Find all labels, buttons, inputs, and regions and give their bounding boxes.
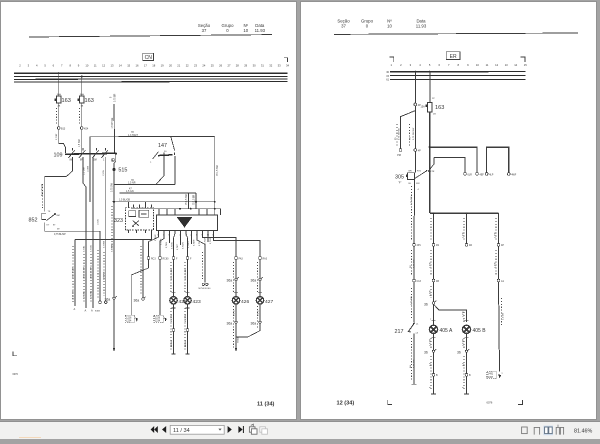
U1 unused pin stubs [170,233,209,245]
wire F1 to connector [58,103,60,127]
svg-text:8: 8 [69,63,71,67]
wire F1 connector down to switch 109 [59,129,66,153]
bus line X [14,78,288,80]
fuse 163 (F1) [55,93,71,107]
frame corner mark top-right [284,58,288,62]
svg-text:12: 12 [102,63,105,67]
first page button [151,426,158,433]
svg-text:0,75BL: 0,75BL [166,242,168,248]
svg-text:1: 1 [391,63,393,67]
svg-text:405 B: 405 B [473,328,487,334]
wire U1 pin1 to connector RC3 [149,233,159,256]
wire 515 down long center run [113,169,115,296]
ground ref box right column [487,371,504,378]
svg-text:4LP: 4LP [489,173,494,176]
svg-text:17: 17 [144,63,147,67]
svg-text:1497: 1497 [488,376,494,379]
svg-text:4EF: 4EF [480,173,485,176]
wire staple to connectors 4LP 4WF [485,147,517,176]
svg-text:0,75GN: 0,75GN [183,242,185,249]
junction dots row y201.8 [113,201,216,203]
bus line 15 [390,75,525,77]
connector circle 49 [497,243,504,247]
junction dot on wire B [429,146,431,148]
svg-text:163: 163 [62,98,71,104]
svg-text:13: 13 [111,63,114,67]
svg-text:0,75WS: 0,75WS [188,241,190,248]
lamp 427 lower wire merge to 426 [236,304,261,337]
ignition switch 109 [54,148,117,162]
bus line 31 [14,81,288,83]
svg-text:0,75GR: 0,75GR [155,234,157,241]
svg-text:4: 4 [419,63,421,67]
svg-text:4B: 4B [436,280,439,283]
svg-text:a1: a1 [416,323,419,325]
U1 pin wire label smudges [155,234,212,250]
svg-text:4D: 4D [469,244,472,247]
svg-text:30: 30 [164,151,167,153]
svg-text:32: 32 [269,63,272,67]
column end marks x75 x86 x93 [74,307,101,313]
connector circle 40 [465,243,472,247]
svg-text:BR: BR [409,171,412,173]
svg-text:61: 61 [386,79,389,82]
connector circle end contact4 [105,301,108,304]
svg-text:F: F [176,258,178,260]
svg-text:27: 27 [228,63,231,67]
connector circle end of 852 return [99,301,102,304]
last page button [238,426,244,433]
frame corner mark bottom-left [13,351,17,355]
relay 147 left emitter wire [156,156,164,185]
svg-text:0,75BL: 0,75BL [83,245,85,252]
svg-text:1,5 W: 1,5 W [463,231,465,238]
svg-text:A: A [74,307,76,311]
svg-text:217: 217 [395,329,404,335]
svg-text:12: 12 [495,63,498,67]
ground ref box 1234 [154,259,167,322]
svg-text:ER: ER [450,54,457,60]
wire horizontal y239.5 [75,239,152,241]
wire gauge label smudge columns (right page) [397,124,502,390]
svg-text:1,5 SW: 1,5 SW [503,312,505,320]
svg-text:0,75 BR: 0,75 BR [115,93,117,102]
svg-text:36a: 36a [134,298,140,302]
wire from 305 down (column 1) [413,179,416,243]
svg-text:405 A: 405 A [440,328,453,334]
svg-text:8T: 8T [53,225,56,227]
svg-text:163: 163 [85,98,94,104]
bus rail labels 30 15 61 [386,71,389,82]
svg-text:B13: B13 [61,127,66,130]
svg-text:1,5SW: 1,5SW [88,166,90,172]
wire 515 run bottom with arrow [113,299,116,351]
relay 147 [150,143,175,163]
svg-text:305: 305 [395,175,404,181]
switch 305 [395,170,427,185]
svg-text:0,75 SW: 0,75 SW [414,359,416,368]
svg-text:0: 0 [366,24,369,29]
connector circle F423 [186,257,192,261]
switch 852 [29,211,60,226]
svg-text:36a: 36a [251,322,257,326]
wire horizontal feed y136 [90,131,215,137]
gauge labels column x75 [73,266,75,299]
lamp 422 [170,259,187,304]
svg-text:2: 2 [400,63,402,67]
svg-text:5: 5 [44,63,46,67]
connector circle 44 [432,243,439,247]
svg-text:2P: 2P [432,98,435,100]
svg-text:7T: 7T [57,229,60,231]
svg-text:PM: PM [397,154,401,157]
wire horizontal y193 [120,188,196,194]
wire vertical x214.7 [215,137,219,209]
U1 bottom pin ticks [159,230,214,233]
svg-text:23: 23 [194,63,197,67]
wire lamp B bottom [463,352,472,394]
title block page 12 [337,19,426,29]
wire col1 mid [410,246,416,279]
wire vertical x90 [89,137,91,202]
lamp 405 A [429,325,453,334]
single page layout icon [522,427,528,434]
svg-text:2: 2 [19,63,21,67]
svg-text:15: 15 [386,75,389,78]
svg-text:0,75GE: 0,75GE [161,238,163,245]
U1 pin number smudge row [157,235,214,237]
continuous layout icon [534,427,539,434]
svg-text:36: 36 [424,302,428,306]
connector circle 4P lower [414,149,421,153]
lamp 426 [232,297,249,305]
wire contact4 of 109 down [105,157,107,301]
lamp 422 lower wire [171,304,176,354]
wire A main down [410,106,416,149]
svg-text:1,5 SW: 1,5 SW [79,139,81,147]
svg-text:11: 11 [486,63,489,67]
svg-text:4P: 4P [418,149,421,152]
wire drop A from bus [414,71,416,103]
continuous facing layout icon [556,425,563,435]
switch 852 branch: contact wire to loop [45,157,73,212]
svg-text:BL: BL [409,183,412,185]
svg-text:19: 19 [161,63,164,67]
connector 36a col143 [134,240,146,303]
svg-text:30: 30 [386,71,389,74]
connector circle B1 [497,279,504,283]
svg-text:4: 4 [418,189,420,191]
wire drop col2 [433,213,435,243]
svg-text:1,5 BL/GB: 1,5 BL/GB [119,198,130,201]
title rule page 12 [334,33,578,34]
svg-text:37: 37 [202,28,207,33]
svg-text:a3: a3 [416,332,419,334]
node junction at right of 109 [115,152,117,154]
svg-text:1,5 SW: 1,5 SW [83,167,85,175]
wire drop to fuse F2 [81,76,83,97]
svg-text:8M: 8M [57,215,60,217]
svg-text:E4B3: E4B3 [95,311,101,313]
svg-text:75 1,5 SW: 75 1,5 SW [186,193,188,205]
svg-text:31: 31 [261,63,264,67]
svg-text:323: 323 [114,218,123,224]
prev page button [162,426,166,433]
terminal square pin below 109 [112,159,114,161]
wire drop to fuse F1 [58,72,60,96]
connector circle RC60 [159,257,169,261]
svg-text:C13: C13 [417,280,422,283]
svg-text:RT1: RT1 [417,171,422,173]
svg-text:6076: 6076 [487,401,493,405]
svg-text:0,75SW: 0,75SW [111,245,113,252]
svg-text:0,75WS: 0,75WS [103,240,105,248]
svg-text:2B: 2B [433,114,436,116]
connector 36a on 515 run [105,296,117,302]
svg-text:A: A [85,309,87,313]
svg-text:78 1,5 SW: 78 1,5 SW [217,164,219,176]
svg-text:10: 10 [476,63,479,67]
page number field [170,425,224,434]
node 515 [112,154,127,174]
svg-text:A: A [91,309,93,313]
connector label ER box [446,52,460,60]
wire 36a to lamp 405B branch [434,304,467,322]
wire lamp A bottom [430,352,439,394]
relay 323 pin ticks top [129,202,152,208]
frame corner mark bottom-left page12 [388,400,392,404]
svg-text:163: 163 [435,105,444,111]
wire vertical x196 [195,193,197,209]
svg-text:0,75 GN/SW: 0,75 GN/SW [413,127,415,140]
svg-text:36a: 36a [105,298,111,302]
wire U1 pin9 to connector PA3 [203,233,237,256]
U1 top pin ticks [159,209,215,215]
wire horizontal above box y208.7 [131,209,221,215]
wire U1 pin6 to lamp 423 [186,233,188,256]
svg-text:SW: SW [416,183,420,185]
svg-text:RA3: RA3 [263,257,268,260]
connector 36a below lamp B [457,349,469,355]
svg-text:1,5 W: 1,5 W [495,231,497,238]
bus line 30 [14,72,288,74]
lamp 405 B upper ticks [463,310,469,321]
svg-text:36: 36 [457,351,461,355]
svg-text:16: 16 [136,63,139,67]
gauge smudge below 305 [411,189,420,205]
svg-text:PA3: PA3 [239,257,244,260]
relay 147 right emitter wire [174,156,176,185]
svg-text:25: 25 [211,63,214,67]
wire F2 to connector [81,103,83,127]
svg-text:11 (34): 11 (34) [257,402,275,408]
svg-text:852: 852 [29,218,38,224]
gauge smudge above 109 [56,133,105,176]
svg-text:24: 24 [202,63,205,67]
lamp 405 B [462,325,486,334]
viewer toolbar [0,421,600,439]
facing layout icon (selected) [543,426,553,436]
terminal number row 2-34 [19,63,289,67]
wire col2 to 36a [430,282,434,302]
wire col4 bottom long [499,282,505,371]
svg-text:6: 6 [53,63,55,67]
wire drop B from bus [429,71,435,103]
wire A bypass stub PM [395,106,415,157]
svg-text:18: 18 [152,63,155,67]
svg-text:0,75 SW: 0,75 SW [414,259,416,268]
svg-text:RC3: RC3 [151,258,156,260]
connector circle 4B3 [57,127,66,131]
svg-text:4: 4 [430,386,432,388]
svg-text:4P1: 4P1 [417,244,422,247]
svg-text:4: 4 [463,386,465,388]
lamp 426 lower wire with 36a [227,304,240,352]
svg-text:RC60: RC60 [163,258,170,260]
wire col4 mid [495,246,499,279]
wire horizontal y184.4 [114,179,175,185]
previous view icon [249,424,257,434]
frame corner mark bottom-right page12 [518,400,522,404]
svg-text:TK: TK [48,211,51,213]
svg-text:7: 7 [448,63,450,67]
svg-text:28: 28 [236,63,239,67]
svg-text:1,5GN: 1,5GN [103,170,105,176]
lamp 405 A upper ticks [430,304,436,324]
svg-text:B: B [469,374,471,377]
svg-text:20: 20 [169,63,172,67]
svg-text:34: 34 [286,63,289,67]
svg-text:10: 10 [85,63,88,67]
fuse 163 (F2) [78,93,94,107]
wire branch to connector 4EF [430,147,485,176]
bus line 15 [14,75,288,77]
connector circle RC3 [147,257,156,261]
svg-text:a: a [502,373,504,375]
next page button [228,426,232,433]
svg-text:147: 147 [158,143,167,149]
gauge labels column x105.8 [103,271,105,280]
wire B down to junction [429,112,431,213]
wire U1 pin2 to connector RC60 [160,233,164,256]
extra gauge smudges center columns [83,219,113,252]
svg-text:0,75 SW: 0,75 SW [73,290,75,299]
bus line 30 [390,71,525,73]
lamp 427 column with 36a connector [251,259,263,296]
svg-text:A1: A1 [501,280,505,283]
svg-text:423: 423 [193,299,201,305]
svg-text:426: 426 [241,299,249,305]
wire U1 pin4 to lamp 422 [174,233,176,256]
wire col1 to switch 217 [411,282,414,322]
connector circle 4B [432,279,439,283]
svg-text:8: 8 [458,63,460,67]
wire 852 loop bottom return [45,223,100,301]
terminal number row 1-15 [391,63,528,67]
svg-text:15A: 15A [421,106,426,109]
svg-text:1,5 NR: 1,5 NR [128,182,136,185]
wire col1 bottom [409,334,417,385]
svg-text:“F”: “F” [398,181,401,185]
svg-text:515: 515 [118,168,127,174]
svg-text:36a: 36a [251,279,257,283]
wire vertical x188.5 [188,193,190,209]
svg-text:75 1,5 BR: 75 1,5 BR [193,194,195,205]
svg-text:109: 109 [54,152,63,158]
svg-text:14: 14 [514,63,517,67]
connector circle 4C4 [80,127,89,131]
svg-text:4: 4 [36,63,38,67]
lamp 405 B lower wire [463,334,469,350]
junction dot col2 top [433,212,435,214]
svg-text:9: 9 [467,63,469,67]
wire A into switch 305 [414,151,416,172]
svg-text:0,75SW: 0,75SW [210,237,212,244]
wire column x75 [74,240,76,307]
lamp 423 [184,259,201,304]
connector circle 41 [413,243,422,247]
svg-text:1,5 RT/GE: 1,5 RT/GE [112,117,114,128]
svg-text:4P: 4P [501,244,504,247]
connector circle C13 [413,279,422,283]
svg-text:11.93: 11.93 [255,28,266,33]
next view icon (disabled) [260,427,268,434]
lamp 423 lower wire [185,304,190,354]
svg-text:9: 9 [78,63,80,67]
wire contact3 of 109 down to bus y186 [92,157,94,308]
switch 109 moving contact stubs [69,155,105,158]
svg-text:4N: 4N [436,244,439,247]
svg-text:14: 14 [119,63,122,67]
wire drop col4 [495,213,499,243]
wire W3 down to switch 109 [113,104,116,154]
wire U1 pin8 to twin connector [197,233,205,282]
svg-text:CN: CN [145,55,153,61]
svg-text:0,75BR: 0,75BR [194,239,196,246]
wire gauge label smudge columns (left page) [43,108,258,350]
svg-text:1,5GN: 1,5GN [98,219,100,225]
svg-text:NY56 NO60: NY56 NO60 [199,288,212,290]
connector label CN box [143,53,154,61]
svg-text:36a: 36a [227,279,233,283]
svg-text:22: 22 [186,63,189,67]
svg-text:4WF: 4WF [511,173,517,176]
svg-text:0,75GN: 0,75GN [90,245,92,252]
svg-text:0: 0 [226,28,229,33]
connector 36a below lamp A [424,349,436,355]
frame corner mark top-right [521,57,525,62]
svg-text:427: 427 [265,299,273,305]
svg-text:36: 36 [424,351,428,355]
svg-text:F: F [190,258,192,260]
svg-text:21: 21 [177,63,180,67]
title rule [29,35,272,37]
ground ref box 1226 [125,259,148,322]
svg-text:7: 7 [61,63,63,67]
svg-text:K04: K04 [84,127,89,130]
svg-text:13: 13 [505,63,508,67]
wire horizontal y201.7 [112,198,215,201]
control unit U1 box [156,215,217,230]
svg-text:KT: KT [47,225,50,227]
svg-text:5M: 5M [94,160,97,162]
svg-text:10: 10 [243,28,248,33]
wire contact2 of 109 down [83,157,86,308]
node label stack above wire W3 [111,93,117,102]
svg-text:10: 10 [387,24,392,29]
wire drop col3 [463,212,468,243]
wire elbow feed into 147 [171,137,175,151]
